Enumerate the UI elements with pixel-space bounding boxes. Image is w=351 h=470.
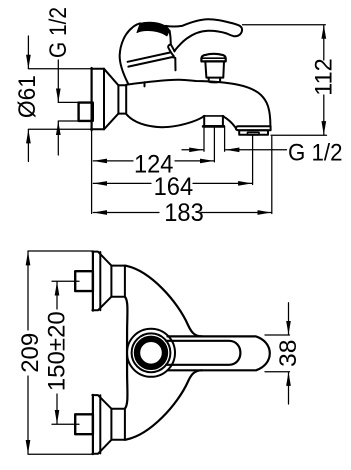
aerator (side view) xyxy=(236,126,271,135)
svg-text:209: 209 xyxy=(17,333,44,373)
ext line lever top xyxy=(243,24,326,26)
body bowtie (bottom view) xyxy=(125,266,270,440)
ext top plate xyxy=(28,250,92,252)
body underside (side view) xyxy=(126,114,204,127)
wall plate top (bottom view) xyxy=(92,251,125,310)
G 1/2 leader arrows (tail) xyxy=(182,149,203,151)
dim 124 xyxy=(93,160,133,162)
ext lines escutcheon (Ø61) xyxy=(28,68,91,70)
boss outer circle xyxy=(127,329,175,377)
bottom tail G1/2 outlet (side view) xyxy=(203,116,224,127)
svg-text:150±20: 150±20 xyxy=(44,311,71,391)
dim 112 xyxy=(323,25,325,60)
ext pipe centers xyxy=(52,280,79,282)
ext line aerator bottom right xyxy=(271,134,327,136)
collar right edge xyxy=(174,58,176,70)
G 1/2 wall pipe (side view) xyxy=(79,103,93,121)
ext bottom plate xyxy=(28,453,92,455)
ext spout edges xyxy=(265,334,290,336)
lever hook detail xyxy=(168,45,174,57)
handle dome (side view) xyxy=(120,23,141,83)
left edge around boss xyxy=(125,297,128,409)
dim Ø61 arrows xyxy=(27,36,29,69)
dim 150±20 xyxy=(56,282,58,309)
boss ring thick xyxy=(137,339,165,367)
tail extension lines xyxy=(203,128,205,152)
dim 38 xyxy=(288,303,290,335)
spout right extension xyxy=(271,137,273,214)
diverter knob (side view) xyxy=(201,54,226,83)
wall plate escutcheon (side view) xyxy=(91,68,126,130)
dim 183 xyxy=(93,212,159,214)
wall plate bottom (bottom view) xyxy=(92,395,125,454)
G 1/2 pipe bottom (bottom view) xyxy=(75,414,93,434)
wall extension line down xyxy=(91,130,93,213)
top-right sweep xyxy=(125,266,202,337)
body underside right of tail xyxy=(223,116,236,128)
aerator center extension xyxy=(252,136,254,185)
handle lever (side view) xyxy=(166,19,243,51)
handle dome right edge xyxy=(170,31,171,45)
svg-text:183: 183 xyxy=(164,199,204,227)
bottom-right sweep xyxy=(125,370,202,440)
dim 164 xyxy=(93,182,151,184)
svg-text:Ø61: Ø61 xyxy=(14,75,41,118)
svg-text:164: 164 xyxy=(154,173,194,201)
spout inner (bottom view) xyxy=(166,341,240,365)
collar bottom edge xyxy=(128,57,175,67)
ext lines pipe (G 1/2) xyxy=(58,101,78,103)
svg-text:38: 38 xyxy=(275,339,302,367)
svg-text:G 1/2: G 1/2 xyxy=(288,139,343,166)
handle dome bottom edge xyxy=(128,53,170,62)
svg-text:G 1/2: G 1/2 xyxy=(45,7,72,58)
G 1/2 pipe top (bottom view) xyxy=(75,271,93,291)
boss ring thin xyxy=(132,333,171,372)
svg-text:112: 112 xyxy=(310,58,337,96)
faucet body (side view) xyxy=(126,80,270,127)
body top small tick xyxy=(144,82,146,86)
handle cap (black) xyxy=(137,22,170,36)
dim G1/2 arrows xyxy=(57,60,59,102)
dim 209 xyxy=(27,252,29,330)
spout outer (bottom view) xyxy=(168,336,270,370)
